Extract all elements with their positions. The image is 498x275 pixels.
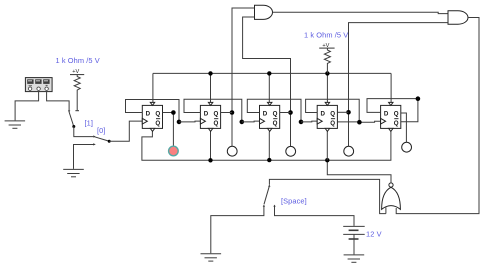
node FF4 ~R / NOR feedback (325, 158, 329, 162)
svg-text:Q: Q (214, 111, 219, 118)
svg-text:D: D (321, 111, 326, 118)
ground (switch) (63, 169, 84, 176)
node FF3 ~S (267, 71, 271, 75)
D flip-flop U5A (260, 102, 280, 131)
wire FF5 D feedback staple (367, 99, 418, 122)
wire S3 throw to ground (211, 206, 264, 253)
wire FF4.Q to AND U2 input B (349, 23, 449, 147)
wire FG common terminal to ground (15, 92, 38, 121)
probe X2 (227, 146, 237, 156)
probe X1 (on) (169, 146, 179, 156)
wire FF4 Qbar to FF5 clock (337, 121, 380, 122)
node FF2 ~R (208, 158, 212, 162)
switch S1 [1]/[0] selector upper (68, 111, 75, 129)
NOR gate U3 (pointing up) (382, 183, 401, 214)
wire bus to FF2 ~S (210, 73, 212, 102)
D flip-flop U4A (142, 102, 162, 131)
wire FF2 D feedback staple (184, 99, 242, 122)
svg-text:[Space]: [Space] (281, 196, 307, 205)
svg-text:D: D (146, 111, 151, 118)
wire FF3 Q stub (280, 112, 291, 114)
wire bus to FF4 ~S (326, 73, 328, 102)
D flip-flop U5B (317, 102, 337, 131)
node FF2 Q (230, 110, 235, 115)
resistor R1 1k (74, 75, 80, 111)
probe X4 (344, 146, 354, 156)
VCC +V symbol (R2) (319, 43, 334, 49)
wire FF2 Qbar to FF3 clock (242, 120, 260, 123)
wire FF3.Q to AND U1 input B (243, 17, 291, 146)
wire bus to FF5 ~S (390, 73, 392, 102)
wire FF2 Q stub (221, 112, 232, 114)
svg-text:D: D (384, 111, 389, 118)
svg-text:Q: Q (330, 111, 335, 118)
wire S2 pole to FF1 clock (109, 121, 142, 141)
probe X5 (402, 142, 412, 152)
node FF4 Qbar (357, 120, 362, 125)
wire FF1 D feedback staple (126, 100, 180, 122)
switch S3 [Space] (263, 185, 276, 207)
wire FF5 Q to probe (401, 113, 407, 142)
wire bus to FF1 ~S (152, 73, 154, 102)
wire S2 open throw to ground (74, 145, 95, 169)
wire S1 pole to S2 throw (74, 127, 94, 137)
svg-text:Q: Q (273, 111, 278, 118)
svg-text:Q: Q (273, 120, 278, 127)
wire FG + terminal to switch S1 throw (47, 92, 70, 111)
svg-text:Q: Q (394, 120, 399, 127)
svg-text:D: D (263, 111, 268, 118)
wire [Space] switch pole to NOR U3 input A (269, 179, 386, 213)
VCC +V symbol (R1) (70, 69, 84, 75)
wire FF4 D feedback staple (306, 99, 360, 122)
switch S2 blade (93, 135, 111, 142)
wire bus to FF3 ~S (268, 73, 270, 102)
wire S3 throw to battery (275, 206, 355, 226)
node FF5 Qbar feedback (416, 96, 421, 101)
D flip-flop U4B (200, 102, 220, 131)
resistor R2 1k (324, 48, 330, 73)
svg-text:D: D (204, 111, 209, 118)
node FF2 ~S (208, 71, 212, 75)
wire FF3 ~R to bus (268, 132, 270, 161)
ground (FG) (5, 121, 26, 128)
node FF3 ~R (267, 158, 271, 162)
svg-text:1 k Ohm /5 V: 1 k Ohm /5 V (56, 56, 100, 65)
AND gate U1 (255, 5, 273, 19)
svg-text:1 k Ohm /5 V: 1 k Ohm /5 V (304, 31, 348, 40)
node FF4 Q (346, 110, 351, 115)
svg-text:12 V: 12 V (366, 230, 382, 239)
svg-text:Q: Q (155, 120, 160, 127)
wire FF4 Q stub (337, 111, 348, 113)
wire AND U1 output to AND U2 input A (273, 12, 448, 13)
node FF3 Qbar (299, 120, 304, 125)
wire FF1 Qbar to FF2 clock (179, 120, 200, 123)
svg-text:Q: Q (214, 120, 219, 127)
node FF1 Qbar (177, 120, 182, 125)
svg-text:Q: Q (330, 120, 335, 127)
node FF2 Qbar (240, 120, 245, 125)
D flip-flop U6A (381, 102, 401, 131)
wire AND U2 output to NOR U3 input B (396, 18, 479, 214)
ground (S3) (201, 254, 222, 261)
battery V1 12V (343, 226, 365, 254)
svg-text:Q: Q (394, 111, 399, 118)
node FF3 Q (288, 110, 293, 115)
preset ~S bus (153, 72, 391, 74)
probe X3 (286, 146, 296, 156)
wire FF3 D feedback staple (247, 99, 301, 122)
ground (battery) (344, 255, 365, 262)
svg-text:Q: Q (155, 111, 160, 118)
svg-text:[0]: [0] (97, 126, 106, 135)
reset ~R bus (142, 132, 391, 161)
wire FF1 Q to probe (163, 113, 174, 146)
wire FF2 ~R to bus (210, 132, 212, 161)
svg-text:[1]: [1] (85, 119, 94, 128)
wire FF3 Qbar to FF4 clock (301, 120, 317, 123)
node FF1 Q (171, 110, 176, 115)
AND gate U2 (448, 11, 468, 24)
wire FF2.Q to AND U1 input A (232, 8, 255, 146)
function generator XFG1 (25, 78, 52, 92)
node R2/FF4 ~S (325, 71, 329, 75)
wire NOR U3 output to reset bus (327, 162, 391, 183)
